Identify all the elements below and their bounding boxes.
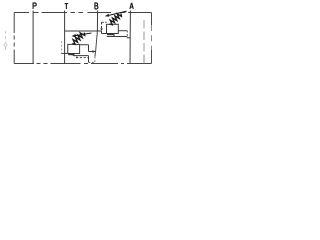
pilot line RV1 (dashed) bbox=[102, 22, 107, 28]
relief valve RV2 body bbox=[68, 44, 80, 53]
pilot line RV2 (dashed) bbox=[61, 41, 63, 53]
gauge port line (faint, left margin) bbox=[5, 31, 7, 52]
port label B bbox=[95, 3, 98, 9]
wire: RV2 right drop bbox=[88, 56, 90, 63]
port line A bbox=[129, 11, 131, 64]
gauge port symbol bbox=[4, 43, 7, 48]
node: junction dot on outlet bbox=[92, 50, 94, 52]
wire: RV1 under-box line bbox=[107, 34, 128, 37]
outer plate border right (dashed) bbox=[151, 25, 153, 50]
RV2 pilot dashes under box bbox=[76, 57, 89, 59]
outer plate border left (dashed) bbox=[13, 13, 15, 64]
RV1 spring bbox=[110, 14, 122, 25]
relief valve RV1 body bbox=[107, 24, 119, 33]
wire: dashed to B line bottom bbox=[89, 61, 95, 63]
outer plate border top (dashed) bbox=[14, 12, 151, 14]
RV1 outlet dashed drop bbox=[126, 31, 128, 38]
port line B upper bbox=[96, 11, 98, 32]
wire: T to relief valve RV1 inlet bbox=[65, 31, 107, 34]
RV2 spring bbox=[72, 33, 84, 45]
outer plate border bottom (dashed) bbox=[14, 63, 151, 65]
node: RV1 pilot tap arrow bbox=[100, 28, 103, 31]
drain line Y (faint dashed vertical) bbox=[143, 20, 145, 56]
wire: RV1 top-right outlet bbox=[118, 30, 127, 32]
RV1 seat bar bbox=[107, 33, 114, 35]
RV2 seat bar bbox=[68, 53, 74, 55]
port line B dashed tail bbox=[94, 57, 96, 64]
port line B lower bbox=[95, 31, 98, 57]
node: small dot bbox=[76, 57, 78, 59]
port label A bbox=[130, 3, 133, 9]
port line T bbox=[64, 11, 66, 64]
port line P bbox=[32, 11, 34, 64]
RV2 adjustment arrow bbox=[75, 33, 92, 36]
RV1 adjustment arrow bbox=[108, 11, 127, 15]
wire: tick to A line bbox=[127, 37, 130, 39]
port label T bbox=[65, 3, 69, 9]
port label P bbox=[33, 3, 36, 9]
wire: T link to relief valve RV2 bbox=[61, 52, 67, 54]
wire: RV2 top-right outlet to B bbox=[80, 45, 96, 52]
wire: RV2 under-box line bbox=[73, 54, 89, 56]
